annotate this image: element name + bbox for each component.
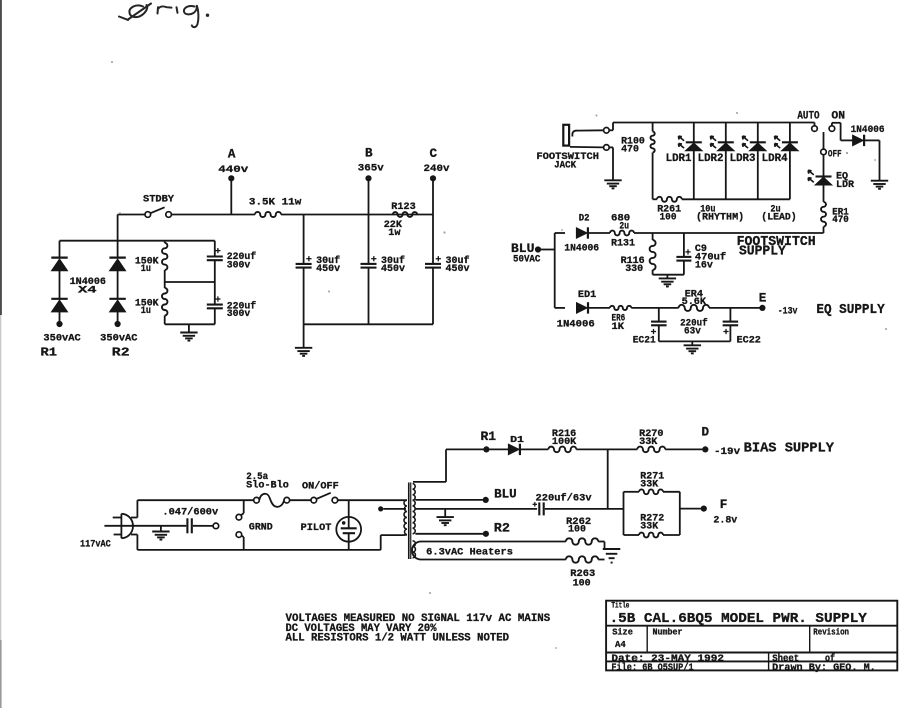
resistor R261 100 [657, 197, 682, 202]
svg-text:R1: R1 [481, 430, 497, 444]
capacitor .047/600v [187, 518, 191, 533]
ground [604, 180, 621, 188]
wire [193, 525, 213, 527]
wire [609, 147, 613, 180]
wire [131, 535, 137, 550]
label 1N4006 [557, 320, 595, 331]
diode ED1 1N4006 [576, 302, 588, 313]
label R116 330 [621, 256, 645, 275]
svg-text:1w: 1w [388, 227, 401, 239]
wire [383, 508, 406, 510]
node C [430, 175, 436, 181]
ground [871, 181, 888, 189]
connector AC plug 117vAC [113, 514, 133, 538]
LED LDR1 [679, 123, 703, 200]
fuse 2.5a Slo-Blo [254, 494, 290, 507]
switch STDBY [145, 207, 171, 217]
svg-text:LDR2: LDR2 [698, 153, 724, 165]
diode D leg1b (1N4006) [51, 299, 67, 312]
svg-text:EC21: EC21 [633, 335, 656, 346]
contact AUTO [812, 126, 818, 132]
label BIAS SUPPLY [744, 441, 835, 456]
label 680 2u [611, 214, 630, 233]
resistor 150K 1w upper [162, 241, 167, 282]
wire switch pole [823, 132, 825, 149]
transformer T1 primary [404, 500, 407, 535]
label D1 [510, 434, 525, 445]
wire [541, 249, 555, 251]
svg-text:D: D [702, 425, 710, 439]
label Date [611, 654, 724, 665]
label 2.5a Slo-Blo [246, 471, 289, 491]
wire jack tip contact [572, 130, 603, 136]
svg-text:R131: R131 [611, 239, 635, 250]
node 350vAC R1 [56, 321, 62, 327]
svg-text:GRND: GRND [249, 521, 273, 533]
diode D leg2b (1N4006) [109, 299, 125, 312]
svg-text:6.3vAC Heaters: 6.3vAC Heaters [426, 548, 513, 559]
svg-text:1u: 1u [141, 264, 151, 275]
resistor 150K 1w lower [162, 282, 168, 324]
resistor ER4 5.6K [679, 305, 710, 311]
svg-text:Slo-Blo: Slo-Blo [246, 479, 289, 490]
node A [228, 175, 234, 181]
label R262 100 [566, 517, 591, 536]
label 2u (LEAD) [761, 205, 796, 224]
wire [381, 535, 404, 550]
svg-text:33K: 33K [639, 437, 658, 448]
contact [236, 532, 242, 538]
label 10u (RHYTHM) [696, 205, 744, 224]
wire [814, 123, 816, 126]
svg-text:-19v: -19v [714, 446, 741, 458]
wire bleeder bottom [165, 323, 215, 325]
svg-text:File: 6B_O5SUP/1: File: 6B_O5SUP/1 [611, 662, 693, 674]
wire [865, 140, 880, 180]
svg-text:(LEAD): (LEAD) [761, 212, 796, 224]
label 150K 1u [135, 257, 160, 275]
wire [131, 500, 137, 517]
label LDR1 [666, 153, 692, 165]
label GRND [249, 521, 273, 533]
label 6.3vAC Heaters [426, 548, 513, 559]
wire [230, 178, 232, 214]
wire [242, 536, 244, 550]
wire [555, 232, 565, 234]
label BLU 50VAC [511, 242, 541, 265]
LED LDR2 [711, 123, 735, 200]
wire [241, 500, 244, 515]
wire [281, 214, 433, 216]
wire [368, 178, 370, 264]
contact [213, 523, 219, 529]
node 350vAC R2 [115, 321, 121, 327]
label D -19v [702, 425, 741, 458]
diode D leg1a (1N4006) [51, 241, 67, 271]
label C9 470uf 16v [695, 244, 726, 271]
label Revision [813, 628, 849, 638]
label Number [653, 628, 683, 638]
label R216 100K [552, 429, 577, 448]
label EQ LDR [836, 171, 855, 192]
LED LDR4 [775, 123, 799, 200]
wire [303, 215, 305, 264]
wire [631, 307, 678, 309]
scan edge artifact [0, 0, 2, 708]
capacitor 30uf 450v [296, 256, 312, 324]
svg-text:1K: 1K [612, 322, 625, 333]
label Drawn By [772, 663, 876, 674]
resistor R271 33K [639, 489, 663, 494]
svg-text:ON: ON [831, 110, 845, 122]
label R270 33K [639, 429, 663, 448]
svg-text:50VAC: 50VAC [513, 254, 541, 265]
wire rectifier top bus [60, 240, 215, 242]
svg-text:PILOT: PILOT [301, 522, 332, 534]
connector footswitch jack body [563, 125, 569, 146]
svg-text:100K: 100K [552, 437, 577, 448]
diode D1 [508, 444, 520, 455]
ground [295, 348, 312, 356]
svg-text:EQ SUPPLY: EQ SUPPLY [816, 303, 885, 318]
wire [117, 271, 119, 299]
label 3.5K 11w [249, 197, 302, 209]
label EC22 [737, 335, 761, 346]
svg-text:1N4006: 1N4006 [851, 125, 885, 136]
resistor R263 100 [566, 556, 598, 562]
svg-text:63v: 63v [684, 327, 701, 338]
label R131 [611, 239, 635, 250]
svg-text:C: C [430, 147, 438, 161]
resistor R262 100 [566, 538, 598, 544]
label Title [611, 601, 629, 611]
svg-text:.047/600v: .047/600v [162, 507, 218, 519]
svg-text:Drawn By: GEO. M.: Drawn By: GEO. M. [772, 663, 876, 674]
label A4 [615, 639, 626, 650]
wire heaters box bottom [421, 559, 566, 561]
label R123 [391, 201, 415, 213]
svg-text:EC22: EC22 [737, 335, 761, 346]
wire [303, 324, 305, 348]
switch ON/OFF [311, 493, 338, 503]
svg-text:SUPPLY: SUPPLY [739, 244, 787, 259]
svg-text:A: A [228, 147, 236, 161]
wire [624, 491, 640, 493]
svg-text:300v: 300v [227, 260, 251, 271]
wire BLU secondary tap [415, 499, 482, 501]
wire R271/R272 box left [623, 492, 625, 535]
wire heaters box left cap [412, 542, 421, 560]
label PILOT [301, 522, 332, 534]
wire center tap [415, 508, 537, 510]
label R263 100 [570, 569, 595, 590]
svg-text:300v: 300v [227, 309, 251, 320]
scan specks [111, 61, 887, 649]
node E [759, 305, 765, 311]
resistor R216 100K [548, 447, 576, 453]
label AUTO ON [797, 110, 845, 122]
capacitor C9 470uf 16v [676, 233, 691, 275]
title block frame [606, 601, 897, 671]
wire [432, 178, 434, 264]
svg-text:100: 100 [573, 579, 591, 590]
ground [180, 333, 197, 341]
svg-text:117vAC: 117vAC [80, 538, 111, 549]
capacitor 30uf 450v [361, 256, 377, 324]
svg-text:A4: A4 [615, 639, 626, 650]
resistor R116 330 [650, 233, 656, 275]
label Sheet of [772, 653, 835, 665]
svg-text:B: B [365, 147, 373, 161]
transformer T1 secondary HV [413, 484, 416, 534]
svg-text:R2: R2 [494, 521, 510, 535]
svg-text:5.6K: 5.6K [682, 297, 707, 308]
wire R2 secondary tap [415, 533, 483, 535]
wire [489, 448, 508, 450]
label BLU [494, 488, 517, 502]
label 350vAC [100, 333, 137, 344]
label FOOTSWITCH JACK [536, 151, 599, 172]
label D2 [579, 214, 590, 225]
svg-text:240v: 240v [424, 163, 451, 175]
wire [823, 155, 825, 177]
label ON/OFF [302, 480, 339, 492]
svg-text:R123: R123 [391, 201, 415, 213]
svg-text:33K: 33K [640, 521, 659, 532]
svg-text:Size: Size [612, 628, 633, 638]
label EC21 [633, 335, 656, 346]
note resistors [286, 633, 510, 645]
wire [659, 340, 731, 342]
label 1N4006 X4 [70, 277, 106, 297]
node BLU 50VAC [535, 246, 541, 252]
wire [117, 215, 119, 241]
label 22K 1w [384, 219, 403, 239]
node R2 [483, 531, 489, 537]
wire AC mid line [104, 525, 186, 527]
transformer T1 secondary 6.3v [413, 541, 416, 558]
label 117vAC [80, 538, 111, 549]
svg-text:2u: 2u [619, 221, 629, 232]
node primary tap [378, 506, 383, 511]
svg-text:Title: Title [611, 601, 629, 611]
wire [117, 312, 119, 324]
ground [659, 278, 676, 286]
svg-text:350vAC: 350vAC [100, 333, 137, 344]
wire LDR bottom bus [653, 198, 790, 200]
contact [604, 145, 610, 151]
wire [691, 341, 693, 345]
svg-text:33K: 33K [640, 479, 659, 490]
svg-text:LDR3: LDR3 [730, 153, 756, 165]
capacitor EC22 220uf 63v [723, 308, 739, 342]
wire [663, 491, 680, 493]
label ED1 [578, 290, 596, 301]
wire [598, 542, 604, 550]
label C 240v [424, 147, 451, 175]
wire [663, 534, 680, 536]
ground [437, 517, 454, 525]
wire [545, 508, 624, 510]
svg-text:BLU: BLU [494, 488, 517, 502]
svg-text:D2: D2 [579, 214, 590, 225]
wire R271/R272 box right [679, 492, 681, 535]
wire heaters box top [421, 541, 566, 543]
wire [59, 271, 61, 299]
label LDR2 [698, 153, 724, 165]
LED EQ LDR [808, 170, 832, 185]
diode 1N4006 [853, 135, 865, 146]
label R2 lead [112, 347, 130, 360]
svg-text:ON/OFF: ON/OFF [302, 480, 339, 492]
capacitor 220uf 300v upper [207, 241, 223, 282]
wire [653, 274, 684, 276]
ground heater [603, 549, 621, 563]
contact [236, 514, 242, 520]
label 350vAC [43, 333, 80, 344]
capacitor EC21 220uf 63v [651, 308, 667, 342]
wire [576, 448, 637, 450]
label 1N4006 [851, 125, 885, 136]
label FOOTSWITCH SUPPLY [737, 235, 816, 259]
svg-text:2.8v: 2.8v [713, 514, 738, 526]
label R100 470 [621, 135, 645, 155]
svg-text:350vAC: 350vAC [43, 333, 80, 344]
wire [589, 307, 611, 309]
wire [290, 499, 311, 501]
label 1N4006 [564, 243, 599, 254]
svg-text:R2: R2 [112, 347, 130, 360]
title text [610, 612, 868, 627]
node BLU [483, 497, 489, 503]
wire [555, 307, 565, 309]
wire [432, 267, 434, 269]
label Size [612, 628, 633, 638]
label 30uf 450v [316, 255, 340, 275]
svg-text:JACK: JACK [554, 160, 577, 172]
label LDR4 [762, 153, 789, 165]
label ER4 5.6K [682, 289, 707, 308]
label R1 lead [41, 347, 58, 360]
ground [684, 345, 701, 353]
svg-text:ALL RESISTORS 1/2 WATT UNLESS: ALL RESISTORS 1/2 WATT UNLESS NOTED [286, 633, 510, 645]
svg-text:450v: 450v [381, 264, 405, 275]
svg-text:Number: Number [653, 628, 683, 638]
wire LDR top bus [613, 122, 815, 124]
wire middle tie [165, 281, 215, 283]
svg-text:365v: 365v [358, 163, 385, 175]
capacitor 220uf/63v [533, 502, 544, 515]
label OFF [828, 149, 842, 160]
svg-text:AUTO: AUTO [797, 110, 819, 122]
wire [338, 499, 407, 501]
svg-text:F: F [720, 498, 728, 512]
svg-text:3.5K 11w: 3.5K 11w [249, 197, 302, 209]
wire [413, 449, 484, 482]
svg-text:Revision: Revision [813, 628, 849, 638]
label R271 33K [640, 471, 664, 490]
ground [152, 532, 169, 540]
svg-text:1N4006: 1N4006 [557, 320, 595, 331]
wire footswitch supply rail [634, 232, 824, 234]
label 30uf 450v [381, 255, 405, 275]
svg-text:100: 100 [660, 213, 677, 224]
label 220uf/63v [536, 492, 592, 504]
wire [609, 123, 613, 131]
capacitor 30uf 450v [425, 256, 441, 324]
svg-text:STDBY: STDBY [143, 194, 175, 205]
svg-text:470: 470 [832, 215, 849, 226]
capacitor 220uf 300v lower [207, 282, 223, 324]
label R1 [481, 430, 497, 444]
wire [188, 324, 190, 332]
resistor R131 680 2u [610, 231, 634, 236]
svg-text:OFF: OFF [828, 149, 842, 160]
node B [365, 175, 371, 181]
svg-text:BIAS SUPPLY: BIAS SUPPLY [744, 441, 835, 456]
wire [607, 449, 609, 509]
svg-text:R1: R1 [41, 347, 58, 360]
resistor R123 22K 1w [393, 212, 417, 217]
svg-text:330: 330 [625, 264, 643, 275]
label File [611, 662, 693, 674]
wire filter bottom bus [304, 323, 433, 325]
lamp PILOT [336, 500, 361, 550]
transformer core [409, 483, 411, 560]
label B 365v [358, 147, 385, 175]
wire [832, 123, 853, 141]
wire AC top rail [137, 499, 253, 501]
contact OFF [821, 149, 827, 155]
label 30uf 450v [446, 255, 470, 275]
wire main B+ rail [171, 214, 255, 216]
label F 2.8v [713, 498, 738, 526]
node R1 [483, 446, 489, 452]
wire [118, 214, 145, 216]
label A 440v [218, 147, 249, 176]
wire [598, 559, 604, 561]
diode D2 1N4006 [576, 227, 588, 238]
svg-text:220uf/63v: 220uf/63v [536, 492, 592, 504]
label R272 33K [640, 513, 664, 532]
diode D leg2a (1N4006) [109, 241, 125, 271]
wire [666, 275, 668, 279]
label .047/600v [162, 507, 218, 519]
node D [702, 446, 708, 452]
handwritten note Orig. [119, 4, 209, 28]
wire [59, 312, 61, 324]
label LDR3 [730, 153, 756, 165]
svg-text:450v: 450v [446, 264, 470, 275]
LED LDR3 [743, 123, 767, 200]
resistor ER6 1K [610, 306, 631, 310]
svg-text:ED1: ED1 [578, 290, 596, 301]
node F [701, 506, 707, 512]
svg-text:1u: 1u [141, 306, 151, 317]
svg-text:LDR: LDR [836, 179, 855, 191]
svg-text:E: E [759, 291, 767, 305]
resistor R100 470 [650, 123, 654, 200]
svg-text:100: 100 [568, 524, 586, 535]
label E -13v [759, 291, 798, 317]
wire [160, 526, 162, 532]
label ER1 470 [832, 207, 849, 226]
resistor ER1 470 [821, 185, 826, 233]
contact ON [829, 126, 835, 132]
label ER6 1K [612, 313, 626, 333]
label 220uf 300v [227, 301, 256, 321]
resistor R270 33K [637, 447, 665, 453]
